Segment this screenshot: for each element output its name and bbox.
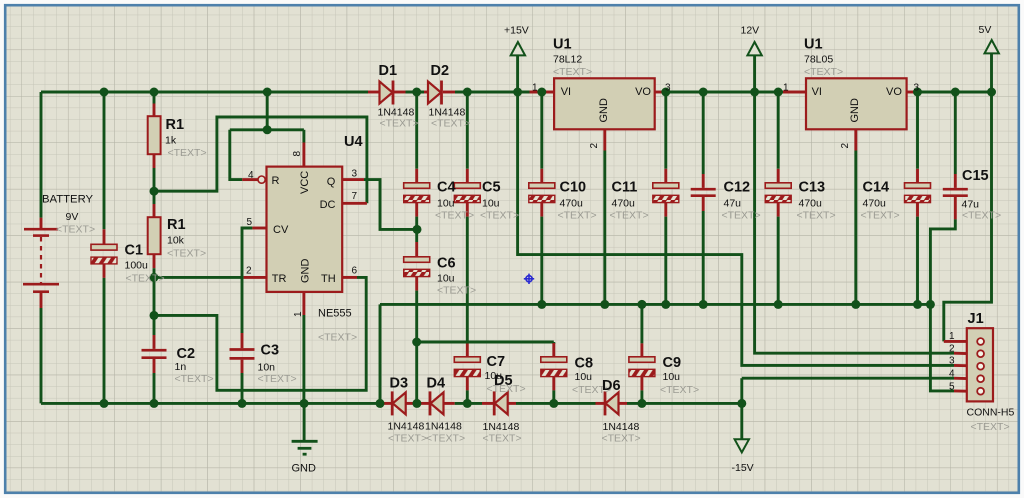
svg-text:R: R (272, 175, 280, 187)
svg-text:<TEXT>: <TEXT> (797, 210, 836, 222)
svg-text:D3: D3 (390, 376, 409, 392)
svg-text:<TEXT>: <TEXT> (610, 210, 649, 222)
svg-text:<TEXT>: <TEXT> (435, 210, 474, 222)
svg-text:10u: 10u (482, 197, 500, 209)
svg-text:<TEXT>: <TEXT> (602, 433, 641, 445)
svg-text:D2: D2 (431, 63, 450, 79)
svg-text:C5: C5 (482, 180, 501, 196)
svg-text:10u: 10u (437, 273, 455, 285)
svg-text:10u: 10u (663, 371, 681, 383)
svg-text:U1: U1 (553, 37, 572, 53)
svg-text:<TEXT>: <TEXT> (426, 433, 465, 445)
svg-text:<TEXT>: <TEXT> (258, 373, 297, 385)
svg-text:2: 2 (949, 344, 955, 355)
svg-text:1n: 1n (175, 361, 187, 373)
svg-text:5: 5 (949, 382, 955, 393)
svg-text:GND: GND (849, 98, 861, 123)
svg-text:VO: VO (635, 86, 651, 98)
svg-text:D6: D6 (602, 378, 621, 394)
svg-text:NE555: NE555 (318, 308, 352, 320)
svg-text:10u: 10u (575, 371, 593, 383)
svg-text:U4: U4 (344, 134, 363, 150)
svg-text:VI: VI (561, 86, 571, 98)
svg-text:470u: 470u (799, 197, 823, 209)
svg-text:78L12: 78L12 (553, 54, 582, 66)
svg-text:Q: Q (327, 176, 336, 188)
svg-text:+15V: +15V (504, 25, 529, 37)
svg-text:<TEXT>: <TEXT> (553, 66, 592, 78)
svg-text:-15V: -15V (732, 462, 754, 474)
svg-text:C7: C7 (487, 354, 506, 370)
svg-text:1N4148: 1N4148 (425, 421, 462, 433)
svg-text:BATTERY: BATTERY (42, 194, 94, 206)
svg-text:C15: C15 (962, 168, 989, 184)
svg-text:1N4148: 1N4148 (603, 421, 640, 433)
svg-text:470u: 470u (612, 197, 636, 209)
svg-text:<TEXT>: <TEXT> (388, 433, 427, 445)
svg-text:1k: 1k (165, 135, 177, 147)
svg-text:470u: 470u (863, 197, 887, 209)
svg-text:47u: 47u (724, 197, 742, 209)
svg-text:10k: 10k (167, 235, 185, 247)
svg-text:10n: 10n (258, 362, 276, 374)
svg-text:C12: C12 (724, 180, 751, 196)
svg-text:C8: C8 (575, 356, 594, 372)
svg-text:TH: TH (321, 273, 336, 285)
svg-text:7: 7 (352, 191, 358, 202)
svg-text:1N4148: 1N4148 (388, 421, 425, 433)
svg-text:2: 2 (840, 143, 851, 149)
svg-text:<TEXT>: <TEXT> (971, 421, 1010, 433)
svg-text:8: 8 (292, 151, 303, 157)
svg-text:U1: U1 (804, 37, 823, 53)
svg-text:C3: C3 (261, 343, 280, 359)
svg-text:<TEXT>: <TEXT> (804, 66, 843, 78)
svg-text:10u: 10u (437, 197, 455, 209)
svg-text:100u: 100u (125, 260, 149, 272)
svg-text:D5: D5 (494, 373, 513, 389)
svg-text:4: 4 (949, 369, 955, 380)
svg-text:GND: GND (300, 259, 312, 284)
svg-text:2: 2 (246, 266, 252, 277)
svg-text:1: 1 (949, 331, 955, 342)
svg-text:470u: 470u (560, 197, 584, 209)
svg-text:<TEXT>: <TEXT> (660, 384, 699, 396)
svg-text:<TEXT>: <TEXT> (318, 332, 357, 344)
svg-text:C11: C11 (612, 180, 638, 196)
svg-text:J1: J1 (968, 311, 984, 327)
svg-text:<TEXT>: <TEXT> (722, 210, 761, 222)
svg-text:1: 1 (293, 311, 304, 317)
svg-text:1: 1 (783, 83, 789, 94)
svg-text:<TEXT>: <TEXT> (558, 210, 597, 222)
svg-text:VO: VO (886, 86, 902, 98)
svg-text:<TEXT>: <TEXT> (167, 248, 206, 260)
svg-text:4: 4 (248, 170, 254, 181)
svg-text:5: 5 (247, 217, 253, 228)
svg-text:3: 3 (914, 83, 920, 94)
svg-text:GND: GND (292, 463, 317, 475)
svg-text:D1: D1 (379, 63, 398, 79)
svg-text:C10: C10 (560, 180, 587, 196)
svg-text:C9: C9 (663, 355, 682, 371)
svg-text:CV: CV (273, 224, 289, 236)
svg-text:<TEXT>: <TEXT> (168, 147, 207, 159)
svg-text:VI: VI (812, 86, 822, 98)
svg-text:6: 6 (352, 266, 358, 277)
svg-text:<TEXT>: <TEXT> (483, 433, 522, 445)
svg-text:<TEXT>: <TEXT> (56, 224, 95, 236)
svg-text:R1: R1 (167, 217, 186, 233)
svg-text:GND: GND (598, 98, 610, 123)
svg-text:<TEXT>: <TEXT> (380, 118, 419, 130)
svg-text:C6: C6 (437, 256, 456, 272)
svg-text:<TEXT>: <TEXT> (480, 210, 519, 222)
svg-text:3: 3 (949, 356, 955, 367)
svg-text:C14: C14 (863, 180, 890, 196)
svg-text:3: 3 (665, 83, 671, 94)
svg-text:TR: TR (272, 273, 287, 285)
svg-text:VCC: VCC (299, 171, 311, 194)
svg-text:<TEXT>: <TEXT> (431, 118, 470, 130)
svg-text:CONN-H5: CONN-H5 (967, 407, 1015, 419)
svg-text:2: 2 (589, 143, 600, 149)
svg-text:<TEXT>: <TEXT> (126, 273, 165, 285)
svg-text:1N4148: 1N4148 (483, 421, 520, 433)
svg-text:78L05: 78L05 (804, 54, 833, 66)
svg-text:1: 1 (532, 83, 538, 94)
svg-text:<TEXT>: <TEXT> (962, 210, 1001, 222)
svg-text:3: 3 (352, 169, 358, 180)
svg-text:C4: C4 (437, 180, 456, 196)
svg-text:<TEXT>: <TEXT> (861, 210, 900, 222)
svg-text:DC: DC (320, 199, 336, 211)
svg-text:C13: C13 (799, 180, 826, 196)
svg-text:12V: 12V (741, 25, 760, 37)
svg-text:D4: D4 (427, 376, 446, 392)
svg-text:R1: R1 (166, 117, 185, 133)
svg-text:5V: 5V (979, 24, 992, 36)
svg-text:C2: C2 (177, 346, 196, 362)
svg-text:C1: C1 (125, 243, 144, 259)
svg-text:<TEXT>: <TEXT> (437, 285, 476, 297)
svg-text:<TEXT>: <TEXT> (175, 373, 214, 385)
svg-text:9V: 9V (66, 211, 79, 223)
